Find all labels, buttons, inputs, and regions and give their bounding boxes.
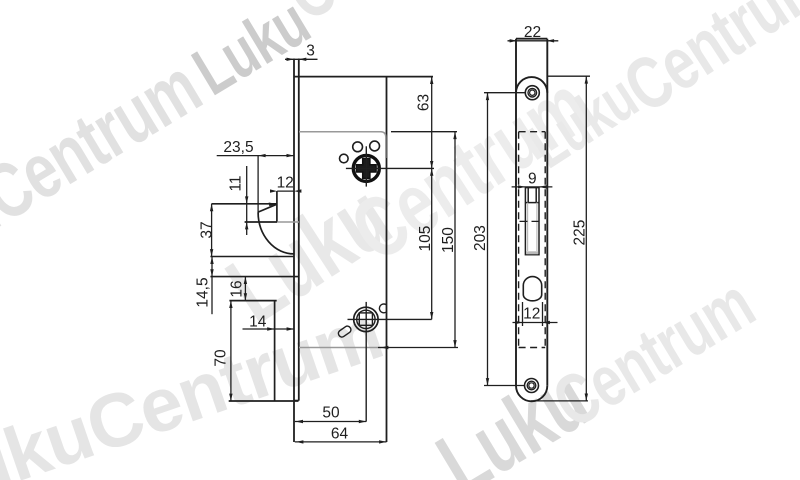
line 14.5 lower — [210, 276, 298, 278]
svg-text:11: 11 — [228, 175, 245, 191]
dimension 9 — [512, 185, 553, 188]
inner plate top edge (light) — [277, 132, 387, 348]
cylinder hole — [337, 304, 386, 338]
svg-text:16: 16 — [229, 280, 246, 297]
dimension 3 — [285, 58, 318, 61]
svg-text:ukuCentrum: ukuCentrum — [0, 290, 392, 480]
svg-text:225: 225 — [572, 220, 589, 246]
dimension 50 — [295, 420, 366, 423]
lock case bottom edge (light) — [299, 347, 387, 349]
svg-text:50: 50 — [322, 405, 340, 422]
svg-text:12: 12 — [523, 306, 540, 323]
svg-text:3: 3 — [306, 43, 315, 60]
line below latch — [210, 256, 294, 258]
dimension 37 — [210, 204, 213, 257]
dashed lock case behind faceplate — [519, 132, 546, 348]
svg-text:203: 203 — [472, 225, 489, 251]
faceplate screw hole bottom — [525, 379, 539, 393]
dashed centerline in slot — [520, 220, 544, 222]
latch slot on faceplate — [525, 188, 539, 255]
svg-text:105: 105 — [417, 226, 434, 252]
faceplate front view — [516, 39, 547, 402]
dimension 225 — [531, 76, 590, 401]
svg-text:Luku: Luku — [181, 0, 322, 110]
svg-text:uCentrum: uCentrum — [0, 43, 214, 257]
spindle crosshair — [346, 146, 434, 186]
dimension 22 — [508, 39, 559, 42]
dimension 150 — [378, 132, 458, 350]
svg-text:150: 150 — [440, 227, 457, 253]
dimension 64 — [295, 440, 387, 443]
svg-text:64: 64 — [331, 426, 349, 443]
cylinder oval slot on faceplate — [523, 277, 541, 301]
dimension 16 — [244, 277, 247, 301]
svg-text:37: 37 — [199, 221, 216, 238]
latch sides hidden (light) — [528, 203, 537, 251]
spindle hole U — [353, 155, 379, 181]
dimension 12 oval — [513, 302, 558, 326]
svg-text:14: 14 — [249, 314, 267, 331]
lock case right edge — [386, 77, 388, 442]
dimension 105 — [430, 168, 433, 319]
svg-text:70: 70 — [213, 349, 230, 367]
dimension 23,5 — [217, 154, 294, 212]
latch top leader arrow — [269, 203, 277, 207]
faceplate screw hole top — [525, 86, 539, 100]
lock case top edge — [294, 76, 433, 78]
dimension 14,5 — [210, 257, 213, 315]
dimension 12 latch — [270, 189, 301, 192]
svg-text:23,5: 23,5 — [223, 139, 253, 156]
spindle fixing holes — [340, 141, 380, 163]
latch bolt — [212, 191, 294, 254]
dimension 63 — [430, 77, 433, 169]
deadbolt — [229, 301, 298, 401]
faceplate side view strip — [293, 59, 295, 443]
svg-text:9: 9 — [528, 171, 537, 188]
dimension 14 — [243, 327, 295, 330]
svg-text:12: 12 — [277, 175, 294, 192]
cylinder crosshair — [348, 302, 432, 422]
svg-text:Centrum: Centrum — [540, 263, 767, 443]
latch slot bottom shadow — [526, 251, 538, 254]
latch bottom hidden (light) — [277, 221, 299, 223]
dimension 70 — [229, 301, 232, 401]
svg-text:22: 22 — [524, 24, 541, 41]
dimension 203 — [484, 93, 525, 386]
svg-text:14,5: 14,5 — [195, 277, 212, 307]
svg-text:63: 63 — [416, 94, 433, 111]
dimension 11 — [245, 166, 248, 235]
